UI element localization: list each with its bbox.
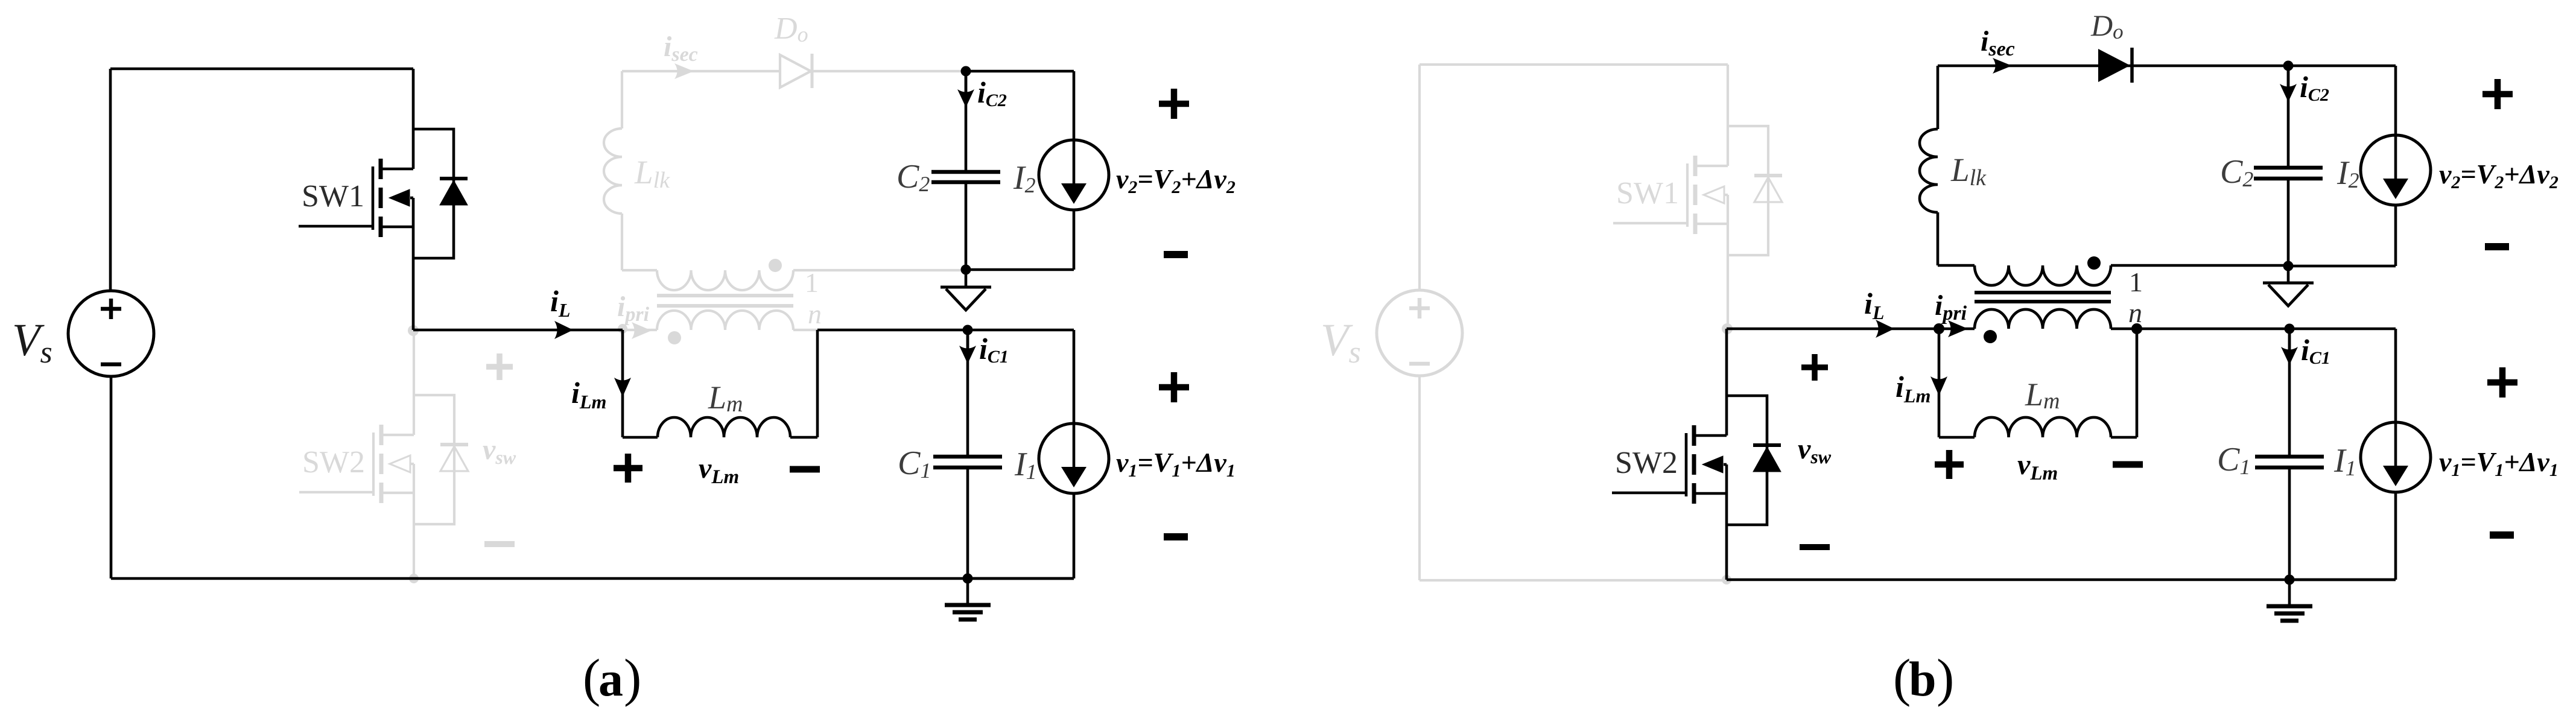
inductor Llk (grey) (604, 128, 622, 214)
transformer core (grey) (657, 296, 793, 306)
label C1 (a) (898, 445, 931, 483)
wire secondary bottom left (b) (1938, 264, 1975, 267)
label i_L (550, 284, 570, 321)
arrow i_C1 (b) (2281, 334, 2298, 365)
wire bottom (grey b) (1420, 579, 1727, 581)
wire SW2 gate lead (grey) (299, 491, 373, 493)
label Do (grey) (774, 11, 808, 46)
transformer core (b) (1975, 293, 2111, 302)
node secondary polarity dot (grey) (769, 259, 782, 272)
wire Lm right stub (b) (2111, 436, 2137, 439)
wire I1 branch (a) (1073, 330, 1076, 578)
svg-text:): ) (624, 649, 641, 708)
label i_pri (b) (1935, 290, 1967, 325)
wire C2 branch upper (a) (965, 71, 968, 171)
label minus v2 (a) (1164, 251, 1188, 258)
wire top (110, 68, 413, 71)
label minus v_Lm (b) (2113, 461, 2143, 468)
wire SW2 source (b) (1725, 464, 1728, 580)
transistor SW2 body (b) (1686, 425, 1727, 504)
wire bottom rail C1 (b) (2289, 578, 2396, 581)
label plus v1 (a) (1159, 372, 1189, 402)
wire left lower (grey b) (1418, 376, 1421, 580)
label plus Vs (101, 299, 121, 319)
wire SW1 drain (grey b) (1727, 65, 1729, 166)
arrow i_L (b) (1876, 320, 1894, 338)
wire SW1 diode jog (grey b) (1728, 126, 1768, 255)
label plus v_Lm (b) (1935, 450, 1964, 479)
node SW1 source junction (grey) (408, 325, 419, 336)
label minus v2 (b) (2485, 243, 2509, 250)
label 1 (b) (2129, 267, 2143, 297)
arrow i_pri (b) (1948, 320, 1968, 337)
wire bottom rail C1 (a) (968, 577, 1074, 580)
wire SW1 source (grey b) (1727, 195, 1729, 329)
svg-text:SW1: SW1 (1616, 176, 1679, 211)
label I1 (b) (2333, 442, 2356, 480)
ground arrow between outputs (b) (2263, 266, 2314, 306)
wire C1 branch upper (b) (2288, 329, 2291, 455)
diode SW2 body diode (grey) (440, 445, 468, 471)
wire to C1 rail (b) (2137, 328, 2289, 331)
winding secondary (b) (1975, 265, 2111, 285)
wire i_Lm (b) (1938, 329, 1941, 437)
label SW1 (302, 179, 364, 214)
wire SW2 gate lead (b) (1612, 492, 1686, 495)
label v_Lm (699, 452, 739, 488)
label Lm (b) (2025, 376, 2060, 414)
wire C2 branch upper (b) (2287, 66, 2290, 166)
label SW2 (grey) (302, 445, 365, 480)
diode SW1 body diode (440, 179, 468, 205)
arrow i_pri (grey) (632, 322, 652, 339)
label minus v_sw (b) (1800, 544, 1830, 550)
wire SW2 diode jog (grey) (414, 395, 454, 524)
label SW1 (grey b) (1616, 176, 1679, 211)
wire Lm right stub (790, 436, 817, 439)
svg-text:SW2: SW2 (1615, 446, 1678, 480)
source Vs (grey b) (1377, 290, 1462, 376)
wire top rail C1 (a) (968, 329, 1074, 332)
node junction i_L (b) (1934, 323, 1944, 334)
wire SW2 drain (b) (1725, 329, 1728, 436)
wire bottom (111, 577, 1074, 580)
svg-text:b: b (1909, 651, 1937, 706)
wire i_L (413, 329, 623, 332)
wire Llk upper stub (grey) (621, 71, 623, 128)
label i_L (b) (1864, 287, 1884, 323)
label C2 (b) (2220, 153, 2253, 191)
current source I1 (b) (2361, 422, 2431, 492)
wire i_L (b) (1727, 328, 1939, 331)
wire i_Lm (621, 330, 624, 437)
label I1 (a) (1014, 446, 1037, 484)
node C2 bottom (b) (2283, 261, 2294, 271)
ground arrow between outputs (a) (941, 270, 991, 310)
winding primary (grey) (657, 311, 793, 330)
label v_sw (b) (1798, 433, 1832, 467)
wire Lm left stub (b) (1939, 436, 1975, 439)
wire SW1 gate lead (299, 225, 373, 228)
node C1 top (a) (963, 325, 973, 335)
node junction n (b) (2131, 323, 2142, 334)
wire primary left stub (b) (1939, 328, 1975, 331)
arrow i_C1 (a) (959, 332, 976, 364)
wire C1 branch upper (a) (966, 330, 969, 455)
wire Lm right vertical (816, 330, 819, 437)
wire secondary loop top (grey) (622, 70, 966, 72)
wire secondary bottom right (grey) (793, 269, 966, 271)
svg-text:a: a (598, 651, 623, 706)
diode SW1 body diode (grey b) (1754, 176, 1782, 202)
svg-text:n: n (808, 299, 822, 329)
node C1 bottom (b) (2285, 575, 2295, 585)
node C1 bottom (a) (963, 574, 973, 584)
svg-text:): ) (1937, 649, 1954, 708)
wire top (grey b) (1420, 63, 1728, 66)
wire top rail C2 (a) (966, 70, 1074, 73)
label i_C1 (b) (2301, 333, 2330, 368)
arrow i_C2 (b) (2280, 71, 2297, 102)
wire bottom rail C2 (a) (966, 268, 1074, 271)
capacitor C1 (a) (933, 457, 1002, 467)
wire Llk upper stub (b) (1937, 66, 1940, 129)
wire I2 branch (a) (1073, 71, 1076, 270)
label plus v1 (b) (2487, 367, 2517, 398)
label i_C1 (a) (979, 332, 1009, 367)
node C2 top (a) (961, 66, 971, 77)
node secondary polarity dot (b) (2087, 256, 2101, 270)
label v2=V2+dv2 (a) (1116, 163, 1236, 197)
wire SW1 source (412, 198, 415, 330)
label i_C2 (b) (2300, 70, 2329, 105)
label C1 (b) (2217, 441, 2250, 479)
wire Lm left stub (623, 436, 658, 439)
label i_C2 (a) (977, 75, 1007, 110)
svg-text:(: ( (1893, 649, 1911, 708)
transistor SW1 body (grey b) (1687, 156, 1728, 234)
wire SW1 gate lead (grey b) (1613, 222, 1687, 224)
label I2 (b) (2336, 154, 2359, 192)
inductor Lm (b) (1975, 417, 2111, 437)
arrow i_Lm (614, 378, 631, 397)
svg-text:(: ( (583, 649, 600, 708)
node C2 bottom (a) (961, 265, 971, 275)
ground (a) (945, 578, 991, 619)
node C1 top (b) (2285, 324, 2295, 334)
wire C2 branch lower (a) (965, 183, 968, 270)
wire primary right stub (b) (2111, 328, 2137, 331)
current source I2 (a) (1039, 140, 1109, 210)
arrow i_sec (grey) (674, 63, 694, 79)
wire left lower (110, 376, 113, 578)
wire left upper (grey b) (1418, 65, 1421, 290)
transistor SW2 body (grey) (373, 425, 414, 503)
label v1=V1+dv1 (b) (2439, 446, 2559, 480)
label n (b) (2128, 297, 2142, 328)
wire top rail C2 (b) (2288, 65, 2396, 68)
wire SW2 drain (grey) (413, 330, 415, 435)
label Lm (708, 379, 743, 417)
source Vs (68, 291, 154, 376)
label 1 (grey) (805, 267, 819, 298)
wire SW2 diode jog (b) (1727, 396, 1767, 525)
node SW2 bottom junction (grey) (409, 574, 419, 583)
capacitor C1 (b) (2255, 457, 2324, 467)
wire Lm right vertical (b) (2136, 329, 2139, 437)
diode Do (grey) (780, 54, 812, 88)
label C2 (a) (896, 158, 930, 196)
wire C1 branch lower (b) (2288, 469, 2291, 580)
label Llk (b) (1950, 151, 1987, 191)
arrow i_sec (b) (1993, 58, 2012, 74)
label plus v2 (b) (2482, 79, 2513, 109)
label i_Lm (571, 376, 606, 413)
node C2 top (b) (2283, 61, 2294, 71)
node SW1 source junction (grey b) (1722, 323, 1733, 334)
ground (b) (2267, 580, 2312, 621)
wire primary left stub (grey) (623, 329, 657, 331)
label Vs (12, 315, 52, 370)
caption (b) (1893, 649, 1954, 708)
svg-text:SW1: SW1 (302, 179, 364, 214)
arrow i_Lm (b) (1930, 376, 1947, 396)
winding primary (b) (1975, 309, 2111, 329)
wire bottom (b) (1727, 578, 2396, 581)
wire top rail C1 (b) (2289, 328, 2396, 331)
label minus v_Lm (790, 466, 820, 473)
label v_Lm (b) (2017, 449, 2058, 484)
winding secondary (grey) (657, 270, 793, 290)
label Do (b) (2090, 8, 2124, 43)
label Vs (grey b) (1321, 315, 1361, 370)
wire bottom rail C2 (b) (2288, 265, 2396, 268)
wire SW2 source (grey) (413, 464, 415, 578)
label plus v_sw (b) (1801, 354, 1828, 381)
label minus Vs (101, 363, 121, 367)
wire to C1 rail (817, 329, 968, 332)
label plus Vs (grey b) (1409, 298, 1430, 318)
wire primary right stub (grey) (793, 329, 817, 331)
transistor SW1 body (373, 159, 413, 237)
label v2=V2+dv2 (b) (2439, 159, 2559, 192)
capacitor C2 (b) (2254, 168, 2323, 179)
wire secondary loop top (b) (1938, 65, 2288, 68)
arrow i_C2 (a) (957, 76, 974, 107)
svg-text:1: 1 (805, 267, 819, 298)
node primary polarity dot (b) (1984, 330, 1997, 343)
wire Llk lower stub (grey) (621, 214, 623, 270)
label minus v1 (a) (1164, 533, 1188, 540)
current source I1 (a) (1039, 423, 1109, 493)
wire secondary bottom left (grey) (622, 269, 657, 271)
diode Do (b) (2098, 48, 2132, 83)
wire SW1 diode jog (413, 129, 454, 258)
capacitor C2 (a) (931, 172, 1000, 182)
caption (a) (583, 649, 641, 708)
wire I1 branch (b) (2394, 329, 2397, 580)
wire I2 branch (b) (2394, 66, 2397, 266)
current source I2 (b) (2361, 135, 2431, 205)
label minus v1 (b) (2490, 531, 2514, 539)
diode SW2 body diode (b) (1753, 445, 1781, 472)
label SW2 (b) (1615, 446, 1678, 480)
node SW2 bottom junction (grey b) (1722, 575, 1731, 585)
wire C2 branch lower (b) (2287, 180, 2290, 266)
wire SW1 drain (412, 69, 415, 169)
inductor Llk (b) (1920, 129, 1938, 212)
inductor Lm (658, 417, 790, 437)
label i_sec (b) (1981, 25, 2015, 60)
label Llk (grey) (634, 154, 670, 193)
wire Llk lower stub (b) (1937, 212, 1940, 265)
wire secondary bottom right (b) (2111, 264, 2288, 267)
svg-text:n: n (2128, 297, 2142, 328)
label i_pri (grey) (617, 291, 650, 326)
label minus v_sw (grey) (484, 541, 515, 547)
svg-text:1: 1 (2129, 267, 2143, 297)
svg-text:SW2: SW2 (302, 445, 365, 480)
wire C1 branch lower (a) (966, 469, 969, 578)
arrow i_L (554, 321, 573, 339)
label i_sec (grey) (664, 31, 698, 66)
label i_Lm (b) (1896, 370, 1930, 407)
label n (grey) (808, 299, 822, 329)
label plus v_sw (grey) (486, 353, 513, 380)
wire left upper (109, 69, 112, 291)
label I2 (a) (1013, 159, 1036, 197)
node primary polarity dot (grey) (668, 331, 681, 344)
label plus v_Lm (614, 454, 642, 483)
label plus v2 (a) (1159, 89, 1189, 119)
label minus Vs (grey b) (1409, 362, 1430, 366)
label v1=V1+dv1 (a) (1116, 447, 1236, 481)
label v_sw (grey) (483, 434, 516, 468)
node junction i_L (grey) (618, 324, 627, 334)
